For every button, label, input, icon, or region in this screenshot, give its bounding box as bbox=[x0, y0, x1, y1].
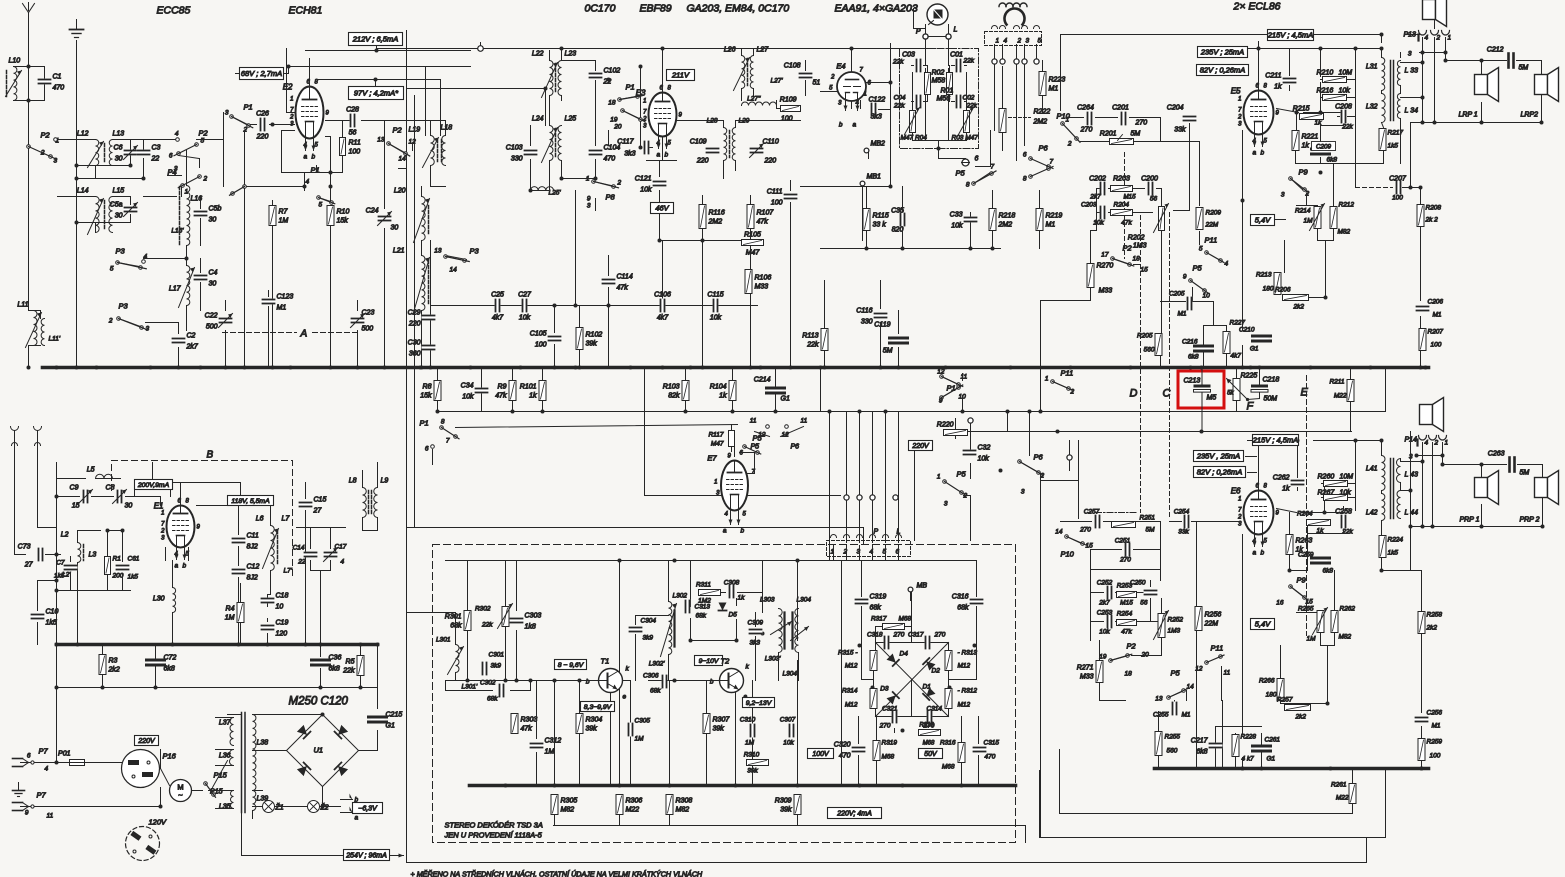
speaker bbox=[1475, 471, 1499, 505]
capacitor bbox=[1144, 590, 1158, 596]
svg-text:P16: P16 bbox=[163, 752, 177, 761]
net C dashed bbox=[1163, 213, 1171, 519]
svg-text:R225: R225 bbox=[1241, 373, 1258, 380]
wire bbox=[825, 281, 899, 368]
resistor R5 bbox=[342, 656, 364, 676]
node bbox=[55, 366, 1428, 370]
switch bbox=[621, 109, 645, 122]
svg-text:P1: P1 bbox=[947, 384, 956, 393]
svg-text:C119: C119 bbox=[874, 322, 890, 329]
svg-text:R310: R310 bbox=[744, 752, 760, 759]
svg-text:6: 6 bbox=[169, 153, 173, 160]
svg-text:M22: M22 bbox=[1334, 393, 1347, 400]
tube E5 bbox=[1231, 84, 1280, 157]
svg-text:L10: L10 bbox=[9, 58, 21, 65]
wire bbox=[962, 717, 979, 786]
svg-text:L27': L27' bbox=[771, 78, 784, 85]
svg-text:22k: 22k bbox=[893, 103, 905, 110]
svg-text:L8: L8 bbox=[349, 478, 357, 485]
wire bbox=[1423, 38, 1446, 123]
resistor bbox=[1323, 95, 1347, 101]
wire bbox=[914, 9, 926, 29]
svg-text:C19: C19 bbox=[276, 620, 289, 627]
wire bbox=[890, 149, 892, 187]
svg-text:T1: T1 bbox=[601, 657, 610, 666]
wire bbox=[1061, 522, 1161, 581]
wire bbox=[925, 84, 927, 141]
resistor R307 bbox=[703, 714, 730, 734]
svg-text:b: b bbox=[183, 563, 187, 570]
svg-text:1: 1 bbox=[1238, 97, 1241, 103]
svg-text:18: 18 bbox=[608, 100, 616, 107]
svg-text:a: a bbox=[1253, 550, 1257, 557]
svg-text:P6: P6 bbox=[1039, 144, 1049, 153]
label box 220V bbox=[135, 736, 159, 746]
capacitor bbox=[1125, 543, 1131, 557]
wire bbox=[28, 23, 30, 101]
capacitor C33 bbox=[950, 212, 978, 230]
wire bbox=[1258, 42, 1260, 49]
svg-text:19: 19 bbox=[610, 117, 618, 124]
svg-text:4k7: 4k7 bbox=[492, 315, 504, 322]
wire bbox=[232, 117, 248, 125]
svg-text:C318: C318 bbox=[867, 632, 883, 639]
title EAA91 4xGA203 bbox=[835, 3, 918, 15]
svg-text:3k3: 3k3 bbox=[624, 151, 635, 158]
wire bbox=[942, 374, 963, 412]
wire bbox=[939, 149, 966, 159]
capacitor C211 bbox=[1265, 73, 1296, 91]
text 120V bbox=[149, 818, 168, 827]
svg-text:120V: 120V bbox=[149, 818, 168, 827]
svg-text:39k: 39k bbox=[780, 807, 792, 814]
svg-text:L26: L26 bbox=[724, 47, 736, 54]
svg-text:R301: R301 bbox=[445, 614, 462, 621]
svg-text:9: 9 bbox=[1183, 274, 1187, 281]
svg-text:M47 R04: M47 R04 bbox=[901, 135, 928, 142]
capacitor C5a bbox=[110, 202, 138, 220]
net D dashed bbox=[1125, 153, 1141, 513]
svg-text:R219: R219 bbox=[1046, 213, 1063, 220]
wire bbox=[38, 581, 57, 645]
svg-text:211V: 211V bbox=[671, 71, 690, 80]
wire bbox=[228, 714, 242, 716]
svg-text:C02: C02 bbox=[963, 95, 975, 102]
decoder caption bbox=[444, 821, 543, 840]
resistor bbox=[1223, 332, 1230, 354]
svg-text:R223: R223 bbox=[1049, 77, 1066, 84]
svg-text:C310: C310 bbox=[740, 717, 756, 724]
wire bbox=[1097, 189, 1162, 231]
wire bbox=[790, 181, 792, 241]
svg-text:M1: M1 bbox=[1432, 723, 1441, 730]
svg-text:P01: P01 bbox=[58, 751, 71, 758]
svg-text:a: a bbox=[355, 815, 359, 822]
svg-text:R224: R224 bbox=[1388, 537, 1404, 544]
svg-text:2: 2 bbox=[843, 549, 848, 556]
svg-text:20: 20 bbox=[1141, 652, 1150, 659]
wire bbox=[186, 263, 188, 331]
speaker bbox=[1535, 471, 1559, 505]
svg-text:P7: P7 bbox=[37, 791, 47, 800]
svg-text:33k: 33k bbox=[1178, 529, 1189, 536]
wire bbox=[226, 291, 358, 368]
wire bbox=[662, 49, 664, 93]
resistor R215 bbox=[1293, 106, 1324, 120]
svg-text:M68: M68 bbox=[899, 616, 912, 623]
resistor bbox=[1110, 139, 1134, 145]
svg-text:C33: C33 bbox=[950, 212, 963, 219]
wire bbox=[282, 131, 331, 173]
resistor R116 bbox=[699, 205, 725, 229]
coil L25p bbox=[531, 187, 562, 197]
svg-text:1: 1 bbox=[937, 474, 941, 481]
switch P2 bbox=[1111, 244, 1134, 267]
wire bbox=[645, 368, 841, 496]
capacitor bbox=[1253, 336, 1271, 342]
svg-text:56: 56 bbox=[1140, 600, 1148, 607]
wire bbox=[970, 424, 972, 479]
svg-text:ECC85: ECC85 bbox=[157, 5, 191, 17]
capacitor C114 bbox=[602, 274, 633, 292]
svg-text:R02: R02 bbox=[932, 70, 945, 77]
svg-text:47k: 47k bbox=[495, 393, 507, 400]
svg-text:R309: R309 bbox=[775, 798, 792, 805]
svg-text:1k5: 1k5 bbox=[1388, 143, 1399, 150]
svg-text:68k: 68k bbox=[650, 688, 661, 695]
svg-text:L7': L7' bbox=[284, 568, 293, 575]
svg-text:b: b bbox=[1261, 550, 1265, 557]
svg-text:3: 3 bbox=[146, 326, 150, 333]
svg-text:MB: MB bbox=[917, 583, 928, 590]
wire bbox=[659, 161, 661, 241]
svg-text:M1: M1 bbox=[1049, 86, 1059, 93]
svg-text:3: 3 bbox=[1408, 51, 1412, 58]
wire bbox=[446, 680, 597, 682]
svg-text:2M2: 2M2 bbox=[708, 219, 723, 226]
svg-text:L 44: L 44 bbox=[1405, 510, 1419, 517]
wire bbox=[1039, 191, 1041, 249]
dipole antenna 1 bbox=[11, 427, 19, 463]
svg-text:15: 15 bbox=[1141, 267, 1149, 274]
svg-text:10: 10 bbox=[1203, 293, 1211, 300]
svg-text:b: b bbox=[586, 679, 590, 686]
svg-text:L14: L14 bbox=[77, 188, 89, 195]
svg-text:R105: R105 bbox=[744, 232, 761, 239]
switch P5 bbox=[956, 169, 997, 186]
connector strip 1-5 bbox=[985, 26, 1042, 46]
svg-text:1k5: 1k5 bbox=[1388, 550, 1399, 557]
switch P8 bbox=[592, 180, 619, 202]
svg-text:C11: C11 bbox=[247, 533, 259, 540]
svg-text:P10: P10 bbox=[1061, 550, 1075, 559]
footnote bbox=[411, 870, 704, 877]
svg-text:D2: D2 bbox=[932, 668, 941, 675]
svg-text:4k7: 4k7 bbox=[1231, 353, 1242, 360]
svg-text:C303: C303 bbox=[525, 613, 542, 620]
svg-text:Ž1: Ž1 bbox=[275, 803, 284, 812]
wire bbox=[78, 531, 101, 645]
svg-text:C308: C308 bbox=[724, 580, 740, 587]
svg-text:470: 470 bbox=[604, 156, 616, 163]
resistor R306 bbox=[616, 795, 642, 815]
svg-text:2: 2 bbox=[1305, 191, 1310, 198]
wire bbox=[1291, 587, 1321, 613]
svg-text:L27'': L27'' bbox=[747, 96, 761, 103]
transformer L12/L13 bbox=[77, 131, 124, 168]
coil L27pp bbox=[742, 96, 777, 106]
svg-text:R5: R5 bbox=[346, 659, 355, 666]
switch P9 bbox=[1289, 576, 1308, 601]
svg-text:P1: P1 bbox=[244, 103, 253, 112]
svg-text:L2: L2 bbox=[61, 532, 69, 539]
svg-text:10k: 10k bbox=[640, 187, 652, 194]
svg-text:M1: M1 bbox=[1182, 712, 1191, 719]
svg-text:C206: C206 bbox=[1428, 299, 1444, 306]
svg-text:5k: 5k bbox=[1227, 391, 1234, 397]
resistor bbox=[1330, 207, 1337, 229]
svg-text:R204: R204 bbox=[1114, 202, 1130, 209]
wire bbox=[562, 160, 596, 179]
wire bbox=[976, 131, 991, 167]
svg-text:1k: 1k bbox=[719, 393, 727, 400]
capacitor bbox=[916, 95, 922, 109]
wire bbox=[456, 425, 738, 428]
wire bbox=[742, 49, 781, 109]
wire bbox=[438, 368, 1386, 412]
svg-text:R218: R218 bbox=[999, 213, 1016, 220]
svg-text:R256: R256 bbox=[1205, 612, 1222, 619]
svg-text:R109: R109 bbox=[780, 97, 797, 104]
svg-text:100: 100 bbox=[535, 342, 547, 349]
svg-text:L3: L3 bbox=[89, 552, 97, 559]
svg-text:15k: 15k bbox=[420, 393, 432, 400]
svg-text:P2: P2 bbox=[199, 129, 209, 138]
label box 211V bbox=[667, 70, 695, 81]
capacitor bbox=[1107, 586, 1113, 600]
capacitor bbox=[1416, 306, 1430, 312]
resistor R303 bbox=[511, 714, 537, 734]
resistor bbox=[1112, 522, 1136, 528]
svg-text:2k 2: 2k 2 bbox=[1425, 217, 1439, 224]
resistor bbox=[1417, 205, 1424, 227]
wire bbox=[536, 681, 538, 786]
wire bbox=[1091, 599, 1162, 656]
switch P5 bbox=[943, 470, 967, 496]
svg-text:L5: L5 bbox=[87, 467, 95, 474]
svg-text:220: 220 bbox=[764, 158, 777, 165]
svg-text:MB1: MB1 bbox=[867, 174, 882, 181]
svg-text:30: 30 bbox=[115, 213, 123, 220]
svg-text:C305: C305 bbox=[635, 718, 651, 725]
label box −6,3V bbox=[353, 803, 383, 814]
wire bbox=[273, 187, 331, 368]
svg-text:3: 3 bbox=[174, 166, 178, 173]
svg-text:11: 11 bbox=[1224, 670, 1231, 677]
wire bbox=[1158, 712, 1160, 769]
svg-text:R03 M47: R03 M47 bbox=[952, 135, 979, 142]
svg-text:5M: 5M bbox=[1520, 470, 1530, 477]
svg-text:P14: P14 bbox=[1405, 437, 1418, 444]
resistor R219 bbox=[1036, 209, 1062, 231]
wire bbox=[1192, 288, 1194, 302]
svg-text:C04: C04 bbox=[894, 95, 906, 102]
svg-text:1: 1 bbox=[161, 511, 164, 517]
svg-text:L41: L41 bbox=[1366, 466, 1378, 473]
svg-text:8J2: 8J2 bbox=[247, 575, 258, 582]
coil L5 bbox=[87, 467, 113, 479]
switch P3 bbox=[116, 247, 147, 270]
svg-text:C210: C210 bbox=[1239, 327, 1255, 334]
wire bbox=[200, 197, 202, 246]
svg-text:L27: L27 bbox=[757, 47, 770, 54]
resistor bbox=[873, 741, 880, 761]
wire bbox=[752, 681, 754, 786]
svg-text:C315: C315 bbox=[984, 740, 1000, 747]
wire bbox=[1290, 507, 1344, 571]
capacitor bbox=[1187, 297, 1193, 311]
switch bbox=[317, 196, 335, 205]
wire bbox=[57, 645, 378, 688]
capacitor bbox=[1312, 558, 1330, 564]
svg-text:L303: L303 bbox=[760, 597, 775, 604]
capacitor bbox=[789, 724, 795, 738]
svg-text:50M: 50M bbox=[1264, 396, 1278, 403]
svg-text:5M: 5M bbox=[1519, 65, 1529, 72]
svg-text:8: 8 bbox=[966, 182, 970, 189]
wire bbox=[662, 241, 664, 306]
svg-text:b: b bbox=[665, 152, 669, 159]
svg-text:R306: R306 bbox=[626, 798, 643, 805]
transformer L28/L29 bbox=[707, 118, 750, 161]
wire bbox=[797, 561, 799, 786]
svg-text:2M2: 2M2 bbox=[1033, 119, 1048, 126]
svg-text:2: 2 bbox=[40, 150, 45, 157]
svg-text:19: 19 bbox=[1099, 654, 1107, 661]
svg-text:P5: P5 bbox=[957, 470, 967, 479]
svg-text:C214: C214 bbox=[754, 377, 771, 384]
svg-text:L11': L11' bbox=[49, 336, 61, 343]
svg-text:C212: C212 bbox=[1487, 47, 1504, 54]
svg-text:220V: 220V bbox=[911, 443, 930, 450]
svg-text:3k3: 3k3 bbox=[871, 114, 882, 121]
wire bbox=[77, 140, 144, 179]
svg-text:L25': L25' bbox=[549, 190, 562, 197]
motor M bbox=[170, 780, 192, 802]
wire bbox=[913, 73, 967, 111]
svg-text:R8: R8 bbox=[423, 384, 432, 391]
svg-text:10k: 10k bbox=[951, 223, 963, 230]
wire bbox=[56, 463, 58, 645]
svg-text:R270: R270 bbox=[1097, 263, 1114, 270]
svg-text:2k2: 2k2 bbox=[1295, 714, 1307, 721]
wire bbox=[554, 681, 556, 786]
capacitor C105 bbox=[530, 331, 562, 349]
wire bbox=[868, 151, 870, 159]
svg-text:L 34: L 34 bbox=[1405, 108, 1419, 115]
svg-text:22k: 22k bbox=[342, 668, 355, 675]
svg-text:1: 1 bbox=[1448, 35, 1452, 42]
switch P5 bbox=[1167, 669, 1188, 700]
svg-text:3: 3 bbox=[54, 158, 58, 165]
svg-text:100V: 100V bbox=[812, 751, 830, 758]
svg-text:L23: L23 bbox=[565, 51, 577, 58]
svg-text:C17: C17 bbox=[335, 544, 347, 551]
resistor bbox=[958, 743, 965, 763]
capacitor bbox=[324, 548, 338, 562]
switch P1 cross bbox=[937, 369, 967, 405]
svg-text:R254: R254 bbox=[1117, 611, 1133, 618]
wire bbox=[579, 681, 581, 786]
svg-text:R252: R252 bbox=[1168, 617, 1184, 624]
svg-text:22k: 22k bbox=[481, 622, 493, 629]
svg-text:R11: R11 bbox=[349, 140, 361, 147]
switch P15 bbox=[204, 771, 228, 798]
capacitor C3 bbox=[137, 145, 161, 163]
label box 5,4V bbox=[1251, 215, 1275, 226]
terminals P13 bbox=[1404, 31, 1452, 58]
svg-text:C8: C8 bbox=[106, 485, 115, 492]
svg-text:E4: E4 bbox=[836, 62, 845, 71]
svg-text:500: 500 bbox=[206, 324, 218, 331]
capacitor bbox=[890, 338, 908, 344]
svg-text:1: 1 bbox=[586, 176, 590, 183]
svg-text:1k: 1k bbox=[1274, 84, 1282, 91]
resistor R304 bbox=[576, 714, 602, 734]
capacitor bbox=[892, 710, 898, 724]
wire bbox=[76, 41, 78, 368]
resistor bbox=[1324, 481, 1348, 487]
wire bbox=[407, 613, 456, 645]
svg-text:12: 12 bbox=[409, 139, 417, 146]
svg-text:C6: C6 bbox=[114, 145, 123, 152]
svg-text:4: 4 bbox=[45, 766, 49, 773]
wire bbox=[755, 613, 757, 681]
lamp Z2 bbox=[308, 801, 329, 813]
wire bbox=[1249, 49, 1321, 91]
svg-text:L30: L30 bbox=[153, 596, 165, 603]
svg-text:22: 22 bbox=[297, 559, 306, 566]
svg-text:4: 4 bbox=[1425, 35, 1429, 42]
transformer L18/L19 bbox=[409, 125, 453, 168]
svg-text:9: 9 bbox=[587, 196, 591, 203]
svg-text:4: 4 bbox=[175, 131, 179, 138]
resistor bbox=[1323, 77, 1347, 83]
switch bbox=[1029, 167, 1053, 179]
svg-text:22k: 22k bbox=[892, 59, 904, 66]
svg-text:L16': L16' bbox=[171, 228, 184, 235]
svg-text:30: 30 bbox=[209, 281, 217, 288]
svg-text:8J2: 8J2 bbox=[247, 544, 258, 551]
wire bbox=[305, 166, 317, 187]
wire bbox=[623, 681, 631, 786]
wire bbox=[408, 528, 864, 544]
switch P2 bbox=[1109, 642, 1137, 663]
resistor bbox=[1379, 129, 1386, 151]
svg-text:R101: R101 bbox=[520, 384, 537, 391]
wire bbox=[421, 241, 423, 368]
svg-text:5: 5 bbox=[110, 266, 114, 273]
svg-text:C: C bbox=[1163, 388, 1171, 400]
resistor bbox=[883, 624, 905, 630]
connector P/L decoder bbox=[827, 529, 911, 557]
svg-text:30: 30 bbox=[125, 503, 133, 510]
svg-text:L11: L11 bbox=[17, 302, 28, 309]
wire bbox=[1111, 656, 1162, 661]
wire bbox=[455, 615, 457, 681]
resistor bbox=[870, 689, 877, 709]
wire bbox=[412, 144, 414, 151]
